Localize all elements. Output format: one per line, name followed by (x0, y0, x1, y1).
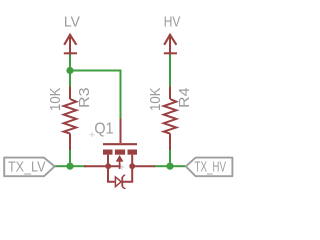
body diode loop right (122, 166, 132, 182)
svg-text:10K: 10K (147, 88, 164, 112)
supply arrow HV (164, 35, 177, 55)
svg-text:TX_HV: TX_HV (195, 160, 227, 176)
svg-text:HV: HV (164, 14, 181, 30)
channel segment right (128, 150, 138, 155)
wire TX_LV tag to node TXLV (55, 165, 71, 167)
source pin and bulk tie (84, 165, 121, 167)
channel segment middle (115, 150, 125, 155)
supply arrow LV (64, 35, 77, 55)
svg-text:TX_LV: TX_LV (8, 160, 46, 176)
transistor Q1 (84, 119, 155, 191)
svg-text:R4: R4 (176, 88, 193, 109)
cathode tick top (122, 175, 125, 177)
origin cross of Q1 (90, 132, 125, 170)
resistor R4 (164, 87, 177, 151)
gate pin (120, 119, 122, 144)
net tag TX_LV (4, 158, 54, 177)
junction node TXLV (66, 163, 73, 170)
net tag TX_HV (186, 158, 233, 177)
channel segment left (103, 150, 113, 155)
wire node TXHV to TX_HV tag (170, 165, 186, 167)
body diode cathode (121, 177, 123, 187)
drain leg (131, 155, 133, 167)
wire node A to Q1 gate (70, 71, 121, 119)
junction node A (66, 67, 73, 74)
body diode loop left (108, 166, 115, 182)
wire Q1 drain pin to node TXHV (155, 165, 171, 167)
wire node A to R3 top (69, 71, 71, 87)
drain pin (132, 165, 155, 167)
resistor R3 (64, 87, 77, 151)
source leg (107, 155, 109, 167)
cathode tick bottom (122, 187, 127, 191)
svg-text:Q1: Q1 (94, 121, 113, 138)
wire R3 bottom to node TXLV (69, 150, 71, 166)
wire LV supply to node A (69, 55, 71, 71)
drain junction dot (129, 163, 135, 169)
body diode triangle (115, 177, 121, 187)
wire node TXLV to Q1 source pin (70, 165, 86, 167)
svg-text:LV: LV (64, 14, 80, 30)
source junction dot (105, 163, 111, 169)
junction node TXHV (166, 163, 173, 170)
bulk arrow (116, 155, 124, 162)
gate bar (103, 143, 137, 145)
wire R4 bottom to node TXHV (169, 150, 171, 166)
wire HV supply to R4 top (169, 55, 171, 87)
svg-text:10K: 10K (47, 88, 64, 112)
svg-text:R3: R3 (76, 88, 93, 109)
